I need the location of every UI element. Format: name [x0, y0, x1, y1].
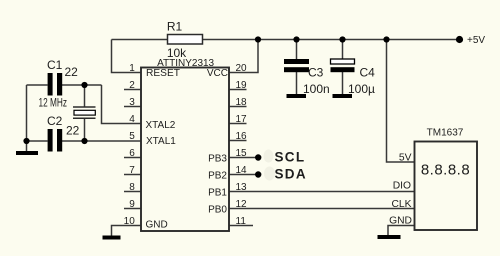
- ground (C3): [287, 94, 307, 98]
- node left ground junction: [23, 138, 29, 144]
- svg-text:DIO: DIO: [393, 181, 411, 192]
- svg-text:13: 13: [236, 182, 248, 193]
- wire left ground drop: [26, 141, 28, 152]
- node SDA: [255, 171, 261, 177]
- wire 5V branch to TM1637: [387, 40, 415, 163]
- wire TM1637 GND to ground: [388, 226, 415, 236]
- wire C2 right lead to pin 5 XTAL1: [62, 140, 141, 142]
- wire pin 3 stub: [124, 106, 141, 108]
- svg-text:C1: C1: [47, 58, 63, 72]
- svg-text:1: 1: [129, 63, 135, 74]
- wire C3 top lead: [296, 40, 298, 61]
- svg-text:VCC: VCC: [207, 68, 228, 79]
- svg-text:15: 15: [236, 148, 248, 159]
- svg-text:XTAL1: XTAL1: [146, 136, 176, 147]
- svg-text:11: 11: [236, 216, 247, 227]
- svg-text:4: 4: [129, 114, 135, 125]
- wire C1 left lead: [27, 84, 48, 86]
- wire pin 6 stub: [124, 157, 141, 159]
- wire C2 left lead: [27, 140, 48, 142]
- wire crystal vertical bottom: [84, 118, 86, 141]
- wire left gnd rail: [26, 85, 28, 141]
- wire crystal vertical top: [84, 85, 86, 107]
- svg-text:TM1637: TM1637: [427, 128, 464, 139]
- svg-text:12 MHz: 12 MHz: [39, 97, 68, 109]
- svg-text:XTAL2: XTAL2: [146, 120, 176, 131]
- ground (TM1637): [378, 235, 401, 239]
- capacitor C2 left plate: [48, 129, 53, 152]
- capacitor C4 negative plate: [331, 67, 355, 72]
- wire pin 8 stub: [124, 191, 141, 193]
- ground (IC pin 10): [103, 236, 121, 240]
- wire pin 18 stub: [229, 106, 247, 108]
- ground (C4): [333, 94, 353, 98]
- svg-text:2: 2: [129, 80, 135, 91]
- svg-text:14: 14: [236, 165, 248, 176]
- svg-text:100n: 100n: [303, 82, 330, 96]
- svg-text:20: 20: [236, 63, 248, 74]
- svg-text:7: 7: [129, 165, 135, 176]
- svg-text:10: 10: [124, 216, 136, 227]
- wire pin 19 stub: [229, 89, 247, 91]
- svg-text:GND: GND: [146, 220, 168, 231]
- wire pin 12 CLK to TM1637: [229, 208, 415, 210]
- wire pin 11 stub: [229, 225, 253, 227]
- svg-text:GND: GND: [389, 215, 412, 226]
- svg-text:PB0: PB0: [208, 204, 227, 215]
- wire top +5V rail: [112, 39, 460, 41]
- svg-text:19: 19: [236, 80, 248, 91]
- ground (left, crystal caps): [16, 151, 38, 155]
- svg-text:18: 18: [236, 97, 248, 108]
- wire pin 14 to SDA dot: [229, 174, 256, 176]
- node crystal top junction: [81, 82, 87, 88]
- svg-text:SCL: SCL: [275, 150, 306, 165]
- svg-text:6: 6: [129, 148, 135, 159]
- capacitor C1 left plate: [48, 73, 53, 96]
- TM1637 display module box: [415, 142, 478, 231]
- wire pin 15 to SCL dot: [229, 157, 256, 159]
- svg-text:R1: R1: [167, 20, 183, 34]
- svg-text:12: 12: [236, 199, 248, 210]
- svg-text:C2: C2: [47, 114, 63, 128]
- wire pin 16 stub: [229, 140, 247, 142]
- wire pin 2 stub: [124, 89, 141, 91]
- svg-text:16: 16: [236, 131, 248, 142]
- svg-text:C4: C4: [360, 66, 376, 80]
- capacitor C3 bottom plate: [284, 67, 309, 72]
- node +5V terminal: [456, 36, 463, 43]
- capacitor C4 positive plate (polarized): [331, 59, 355, 64]
- svg-text:RESET: RESET: [146, 68, 180, 79]
- node crystal bottom junction: [81, 138, 87, 144]
- wire crystal node down to pin 4 XTAL2: [102, 85, 142, 124]
- capacitor C3 top plate: [284, 59, 309, 64]
- wire pin 9 stub: [124, 208, 141, 210]
- capacitor C2 right plate: [57, 129, 62, 152]
- wire R1 left drop to pin 1: [112, 40, 142, 73]
- wire C1 right lead to crystal node: [62, 84, 102, 86]
- wire pin 13 DIO to TM1637: [229, 191, 415, 193]
- svg-text:22: 22: [66, 124, 80, 138]
- op IC U1 ATTINY2313 box: [141, 68, 229, 232]
- svg-text:100µ: 100µ: [348, 82, 375, 96]
- wire pin 17 stub: [229, 123, 247, 125]
- capacitor C1 right plate: [57, 73, 62, 96]
- svg-text:C3: C3: [308, 66, 324, 80]
- ghost smudge artifact: [264, 150, 276, 181]
- wire pin 10 GND to ground: [112, 226, 142, 237]
- svg-text:8.8.8.8: 8.8.8.8: [421, 162, 470, 179]
- crystal X1 12MHz: [73, 107, 96, 118]
- svg-text:22: 22: [65, 65, 79, 79]
- svg-text:CLK: CLK: [391, 199, 411, 210]
- svg-text:5V: 5V: [399, 153, 412, 164]
- svg-text:5: 5: [129, 131, 135, 142]
- svg-text:PB1: PB1: [208, 187, 227, 198]
- wire C4 bottom lead: [342, 72, 344, 96]
- svg-text:PB2: PB2: [208, 170, 227, 181]
- wire C3 bottom lead: [296, 72, 298, 96]
- node junction dots top rail: [255, 36, 261, 42]
- wire C4 top lead: [342, 40, 344, 61]
- svg-text:3: 3: [129, 97, 135, 108]
- svg-text:8: 8: [129, 182, 135, 193]
- svg-text:9: 9: [129, 199, 135, 210]
- svg-text:PB3: PB3: [208, 153, 227, 164]
- wire pin 7 stub: [124, 174, 141, 176]
- svg-text:+5V: +5V: [467, 35, 485, 46]
- wire pin 20 VCC to rail: [229, 40, 258, 73]
- resistor R1 body: [168, 35, 203, 45]
- node SCL: [255, 154, 261, 160]
- svg-text:SDA: SDA: [275, 167, 307, 182]
- svg-text:17: 17: [236, 114, 248, 125]
